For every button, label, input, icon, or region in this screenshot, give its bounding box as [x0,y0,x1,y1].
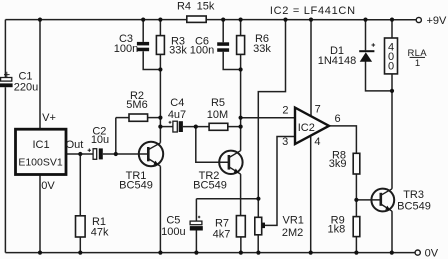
resistor R3 [156,36,164,55]
wire TR1 emitter to bottom rail [159,166,161,252]
svg-text:3k9: 3k9 [329,158,347,170]
svg-text:IC2: IC2 [298,122,315,134]
node ground R1 [78,251,82,255]
wire relay top lead [391,20,393,38]
transistor TR3 [371,189,394,212]
wire R7 bottom lead [240,237,242,253]
wire pin7 to rail [310,20,312,117]
wire top rail right of R4 [206,19,416,21]
node R8 R9 TR3 base [354,198,358,202]
capacitor C5 negative plate [190,226,203,230]
svg-text:100u: 100u [161,226,185,238]
wire C3 bottom lead [143,51,160,69]
svg-text:BC549: BC549 [397,201,431,213]
svg-text:15k: 15k [197,1,215,13]
capacitor C3 bottom plate [137,48,149,52]
svg-text:1k8: 1k8 [328,223,346,235]
wire R2 left horizontal [116,117,129,119]
resistor R4 [187,16,206,22]
wire 0V from IC1 to bottom rail [39,175,41,253]
relay coil RLA1 box [385,38,398,74]
resistor R2 [129,114,148,121]
node rail R3 [158,18,162,22]
svg-text:TR3: TR3 [403,189,424,201]
wire C4 right lead [183,126,209,128]
node R5 TR2 collector [239,125,243,129]
svg-text:R5: R5 [211,97,225,109]
svg-text:V+: V+ [42,112,56,124]
capacitor C4 positive plate [173,121,177,132]
svg-text:1: 1 [415,58,420,69]
node ground R9 [354,251,358,255]
diode D1 anode triangle [360,52,372,62]
node Out-R1 [78,152,82,156]
svg-text:10M: 10M [207,109,228,121]
node ground TR1 emitter [158,251,162,255]
wire TR3 emitter to bottom rail [391,211,393,253]
node ground TR3 emitter [390,251,394,255]
svg-text:33k: 33k [169,45,187,57]
wire supply jog to VR1 top [258,20,285,218]
node ground VR1 [256,251,260,255]
wire V+ from rail to IC1 [39,20,41,130]
svg-text:0V: 0V [41,180,55,192]
capacitor C1 negative plate [0,83,13,87]
potentiometer VR1 wiper arrowhead [262,223,265,229]
svg-text:100n: 100n [190,45,214,57]
capacitor C5 positive plate [190,221,202,225]
wire pin2 input [241,117,295,119]
svg-text:IC2 = LF441CN: IC2 = LF441CN [270,5,356,17]
node ground pin4 [309,251,313,255]
wire C4 left lead [160,126,173,128]
node TR1 base R2 [114,152,118,156]
svg-text:Out: Out [66,139,84,151]
capacitor C4 polarity plus [169,121,172,124]
svg-text:IC1: IC1 [32,139,49,151]
wire op-amp output to R8 [329,126,356,153]
node D1 relay TR3 collector [390,89,394,93]
capacitor C6 top plate [217,42,229,46]
wire left column upper (rail to C1) [4,20,6,78]
wire C5 bottom lead [195,231,197,253]
wire TR3 base [356,199,380,201]
capacitor C2 positive plate [93,149,97,160]
capacitor C4 negative plate [179,121,183,132]
node rail C6 [221,18,225,22]
resistor R5 [209,123,228,130]
node pin2 tap [239,116,243,120]
svg-text:6: 6 [335,113,341,125]
node ground IC1 [38,251,42,255]
wire R6 bottom to TR2 collector [240,54,242,150]
capacitor C2 negative plate [99,148,103,159]
node A C4-R5-TR2 base [194,125,198,129]
svg-text:4k7: 4k7 [213,229,231,241]
wire relay bottom to TR3 collector [391,74,393,91]
node rail C1-IC1 [38,18,42,22]
node R2 collector TR1 [158,116,162,120]
wire R5 right to TR2 collector node [228,126,241,128]
svg-text:7: 7 [315,104,321,116]
wire R1 top lead [79,154,81,216]
svg-text:33k: 33k [253,43,271,55]
wire TR3 collector column [391,91,393,189]
capacitor C2 polarity plus [88,149,91,152]
svg-text:C5: C5 [166,214,180,226]
wire C5 top lead [195,199,197,221]
node rail VR1 feed [283,18,287,22]
wire bottom rail [5,252,415,254]
wire VR1 wiper to pin3 [265,137,295,226]
RLA underline [410,56,425,58]
wire R9 bottom lead [355,237,357,253]
resistor R9 [353,217,360,237]
IC1 box [16,129,67,174]
svg-text:VR1: VR1 [282,215,303,227]
resistor R8 [353,153,360,174]
svg-text:BC549: BC549 [193,180,227,192]
node C5 VR1 top [256,197,260,201]
diode D1 cathode bar [359,50,374,52]
svg-text:2: 2 [282,105,288,117]
node C4 tap TR1 collector [158,125,162,129]
wire VR1 bottom lead [257,235,259,253]
transistor TR1 [139,142,163,166]
node ground C5 [194,251,198,255]
capacitor C6 bottom plate [217,48,229,52]
op-amp IC2 triangle [295,108,329,144]
wire D1 anode to relay node [366,62,393,91]
svg-text:1N4148: 1N4148 [318,55,357,67]
svg-text:2M2: 2M2 [282,227,303,239]
node C6 R6 [239,67,243,71]
wire TR1 collector column [159,54,161,142]
wire TR2 emitter to R7 [240,174,242,216]
svg-text:BC549: BC549 [119,180,153,192]
svg-text:0: 0 [388,61,394,73]
wire R8 to R9 junction [355,174,357,217]
capacitor C1 positive plate [1,78,12,82]
svg-text:R4: R4 [177,1,191,13]
svg-text:10u: 10u [91,134,109,146]
diode D1 polarity plus [372,43,376,47]
node rail relay [390,18,394,22]
wire R2 left lead down to base node [115,118,117,154]
wire left column lower (C1 to bottom rail) [4,87,6,252]
node rail pin7 [309,18,313,22]
wire C3 top lead [142,20,144,42]
terminal +9V [416,17,421,22]
wire C5 top link to VR1 column [196,198,258,200]
node ground R7 [239,251,243,255]
terminal 0V [415,250,420,255]
node rail C3 [141,18,145,22]
svg-text:E100SV1: E100SV1 [18,157,63,169]
wire C2 to TR1 base junction [103,153,149,155]
node rail R6 [239,18,243,22]
wire R6 top lead [240,20,242,36]
svg-text:100n: 100n [114,43,138,55]
wire TR2 base drop [196,127,229,163]
resistor R6 [237,36,245,55]
capacitor C5 polarity plus [198,216,200,218]
wire D1 top lead [365,20,367,51]
svg-text:47k: 47k [91,227,109,239]
svg-text:220u: 220u [14,82,38,94]
svg-text:4: 4 [314,136,320,148]
wire pin4 to bottom rail [310,136,312,253]
svg-text:4u7: 4u7 [168,109,186,121]
wire top rail left of R4 [5,19,186,21]
wire C6 top lead [222,20,224,43]
node rail D1 [363,18,367,22]
wire R2 right to collector column [148,117,161,119]
wire R3 top lead [159,20,161,36]
svg-text:+9V: +9V [426,15,447,27]
wire R1 bottom lead [79,237,81,253]
svg-text:0V: 0V [425,248,439,259]
svg-text:5M6: 5M6 [126,99,147,111]
resistor R1 [76,216,86,237]
capacitor C3 top plate [137,42,149,46]
transistor TR2 [219,151,242,175]
potentiometer VR1 body [255,217,262,235]
svg-text:C4: C4 [170,97,184,109]
resistor R7 [236,216,245,237]
wire IC1 Out [66,153,93,155]
svg-text:3: 3 [282,136,288,148]
wire C6 bottom lead [223,52,240,70]
capacitor C1 polarity plus [4,72,10,78]
node C3 R3 [158,67,162,71]
